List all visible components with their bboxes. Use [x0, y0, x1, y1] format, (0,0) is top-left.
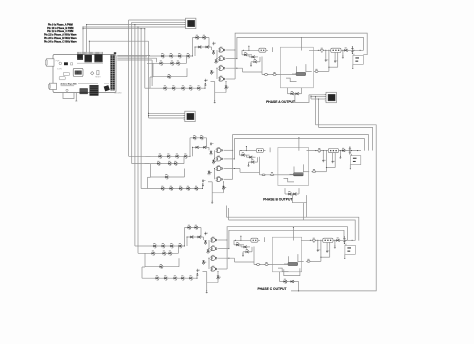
- svg-text:Pin 11 is Phase_C PWM: Pin 11 is Phase_C PWM: [47, 31, 73, 33]
- svg-text:Pin 10 is Phase_B PWM: Pin 10 is Phase_B PWM: [47, 28, 73, 30]
- svg-text:PHASE B OUTPUT: PHASE B OUTPUT: [263, 198, 292, 202]
- svg-text:PHASE C OUTPUT: PHASE C OUTPUT: [257, 287, 286, 291]
- svg-text:ICSP2: ICSP2: [57, 68, 62, 70]
- svg-text:Pin 23 is Phase_B 50Hz Wave: Pin 23 is Phase_B 50Hz Wave: [44, 38, 77, 40]
- svg-text:PHASE A OUTPUT: PHASE A OUTPUT: [266, 100, 295, 104]
